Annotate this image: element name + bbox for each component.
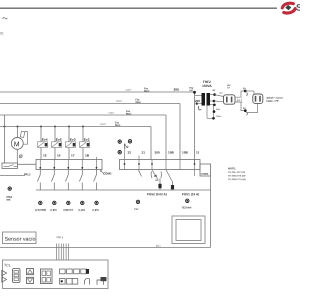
valve Ev4: [38, 127, 48, 160]
svg-text:(L/K)YMM: (L/K)YMM: [35, 209, 46, 212]
wire bus L4: [0, 126, 151, 128]
relay contact 1: [37, 170, 40, 191]
bottom divider line: [0, 247, 211, 249]
fuse FUS2 body: [158, 179, 161, 191]
board dark dot row2: [61, 280, 63, 282]
terminal COM2: [200, 164, 211, 176]
board connector row 1: [60, 269, 87, 274]
svg-text:TH-05N-C75 kW: TH-05N-C75 kW: [228, 178, 247, 181]
junction dot L4 x83: [82, 126, 84, 128]
earth symbol below motor: [19, 155, 22, 158]
rectifier R1: [224, 95, 236, 104]
svg-text:COM2: COM2: [201, 172, 209, 176]
wire stub left: [0, 175, 25, 177]
relay contact 4: [79, 170, 82, 191]
ribbon cable: [57, 244, 69, 261]
junction dot L4 x69: [68, 126, 70, 128]
svg-text:10B: 10B: [182, 150, 188, 154]
node S bubble: [118, 151, 121, 154]
relay contact 3: [65, 170, 68, 191]
wire 194 into COM2: [194, 170, 196, 177]
border top line: [0, 7, 277, 9]
wire drop from L1: [194, 92, 196, 164]
svg-text:NOTE:: NOTE:: [228, 166, 236, 170]
svg-text:Sari: Sari: [216, 109, 221, 111]
wire bus L2: [0, 103, 180, 105]
svg-text:Ev2: Ev2: [84, 138, 90, 142]
svg-text:gb: gb: [154, 173, 158, 177]
svg-text:CIK 3: CIK 3: [56, 235, 63, 239]
svg-text:TCL: TCL: [4, 263, 11, 267]
svg-text:Mavi: Mavi: [115, 124, 121, 127]
plug connector: [245, 91, 262, 113]
switch below block2: [139, 170, 142, 177]
AC tilde symbol: [3, 18, 8, 19]
svg-text:FUS2 (0.02 A): FUS2 (0.02 A): [147, 192, 167, 196]
wire motor feed: [17, 127, 19, 138]
junction dot L4 x17.5: [17, 126, 19, 128]
motor capacitor: [20, 131, 27, 144]
svg-text:Gri: Gri: [227, 87, 231, 89]
junction dot L4 x41: [40, 126, 42, 128]
svg-text:TEZGAH: TEZGAH: [181, 206, 191, 209]
svg-text:KM: KM: [6, 199, 10, 202]
board relay icons: [85, 279, 104, 285]
aux contact at COM1 right: [100, 170, 104, 174]
svg-text:01: 01: [0, 31, 4, 35]
fuse FUS1 body: [171, 181, 174, 190]
note text block: [228, 166, 247, 181]
svg-text:Gri: Gri: [189, 89, 193, 92]
svg-text:Mavi: Mavi: [216, 116, 221, 118]
svg-text:22: 22: [127, 150, 131, 154]
label Faz at L1 end: [189, 87, 194, 93]
junction dot L4 x4.5: [4, 126, 6, 128]
wire drop from L4: [150, 127, 152, 160]
svg-text:Ev5: Ev5: [56, 138, 62, 142]
svg-text:REL2: REL2: [24, 172, 31, 176]
relay contact 2: [51, 170, 54, 191]
wire bus L1: [0, 91, 195, 93]
label sebeke: [266, 97, 283, 103]
svg-text:(L)ED: (L)ED: [50, 209, 57, 212]
svg-text:Mavi: Mavi: [135, 101, 141, 104]
wire drop from L3: [165, 115, 167, 160]
wire secondary to R1: [215, 95, 224, 97]
junction dot L4 x55: [54, 126, 56, 128]
wire REL2 to COM1: [18, 163, 37, 165]
wire left column: [4, 115, 6, 163]
svg-text:kablo + PE: kablo + PE: [266, 100, 279, 103]
legend labels: [35, 206, 192, 211]
svg-text:COM1: COM1: [103, 171, 112, 175]
svg-text:200: 200: [154, 150, 159, 154]
legend bubbles row: [39, 199, 189, 204]
valve Ev2: [80, 127, 90, 160]
bus return line: [36, 189, 211, 191]
wire arrow into block2: [124, 149, 126, 160]
svg-text:200: 200: [173, 88, 179, 92]
transformer primary winding: [202, 93, 206, 106]
board icon keys up/down: [27, 269, 34, 284]
monitor inner: [176, 220, 201, 241]
svg-text:150VA: 150VA: [202, 84, 212, 88]
svg-text:(S)EZGY: (S)EZGY: [63, 209, 73, 212]
svg-text:Ev3: Ev3: [70, 138, 76, 142]
svg-text:Mavi: Mavi: [144, 90, 150, 93]
svg-text:TH-05L 107 kW: TH-05L 107 kW: [228, 171, 246, 174]
board connector row 2: [60, 279, 78, 285]
svg-text:11: 11: [196, 150, 200, 154]
label KMA: [6, 196, 12, 202]
controller board TCL box: [3, 260, 109, 289]
svg-text:Sensor vacío: Sensor vacío: [5, 237, 36, 243]
svg-text:16: 16: [57, 153, 61, 157]
wire R1 to plug: [235, 88, 247, 115]
svg-text:FUS1 (15 A): FUS1 (15 A): [182, 192, 199, 196]
fuse label gb: [151, 172, 161, 183]
logo S mark: [282, 3, 295, 13]
svg-text:21: 21: [141, 150, 145, 154]
label Faz/Mavi L2: [135, 98, 141, 104]
monitor outer: [172, 216, 205, 244]
transformer TRF2 label: [202, 80, 212, 88]
svg-text:kev: kev: [134, 208, 139, 211]
terminal block 2: [120, 160, 201, 170]
primary stub bottom: [197, 103, 202, 105]
wire box2 to FUS1: [166, 170, 172, 181]
svg-text:R1: R1: [236, 98, 243, 104]
svg-text:17: 17: [71, 153, 75, 157]
wire box2 to FUS2: [152, 170, 159, 181]
svg-text:S: S: [296, 2, 300, 13]
valve Ev3: [66, 127, 76, 160]
terminal block COM1: [36, 160, 102, 170]
svg-text:Mavi: Mavi: [126, 112, 132, 115]
label 22 L4: [115, 121, 121, 127]
motor M: [11, 138, 23, 150]
svg-text:(L)HK: (L)HK: [92, 209, 99, 212]
node KMA bubble: [8, 187, 11, 190]
wire drop from L2: [179, 104, 181, 160]
earth hook primary: [198, 106, 201, 110]
label Faz/Mavi L1: [144, 87, 150, 93]
box Sensor vacio: [3, 232, 37, 244]
svg-text:Ev4: Ev4: [42, 138, 48, 142]
board icon display: [41, 269, 53, 284]
relay REL2: [2, 163, 18, 169]
terminal dot L1 end: [193, 91, 196, 94]
wire motor to REL2: [16, 149, 18, 163]
board dark chip: [86, 269, 89, 274]
primary junction dot: [196, 102, 198, 104]
block2 terminal labels: [127, 150, 199, 154]
door switch symbols above block2: [118, 140, 132, 149]
terminal numbers 15 16 17 18: [43, 153, 90, 157]
board edge connector: [101, 277, 107, 281]
wire bus L3: [0, 114, 166, 116]
transformer secondary winding: [207, 93, 211, 106]
svg-text:Gri: Gri: [219, 93, 223, 95]
wire PC right edge: [210, 176, 212, 248]
COM1 feedthrough wires and dots: [39, 157, 97, 170]
label Faz/Mavi L3: [126, 110, 132, 116]
board icon power: [2, 270, 7, 282]
svg-text:(L)AN: (L)AN: [78, 209, 85, 212]
svg-text:TH-05N-075 kW: TH-05N-075 kW: [228, 175, 246, 178]
svg-text:M: M: [14, 141, 20, 148]
svg-text:10B: 10B: [168, 150, 174, 154]
primary stub top: [195, 95, 202, 97]
svg-text:200: 200: [195, 99, 200, 103]
svg-text:15: 15: [43, 153, 47, 157]
secondary tiny labels: [212, 90, 223, 118]
secondary tap wires: [207, 93, 216, 119]
relay contact 5: [94, 170, 97, 191]
block2 feedthrough wires: [124, 156, 196, 170]
label above R1: [227, 84, 231, 89]
valve Ev5: [52, 127, 62, 160]
board icon connector J1: [13, 269, 21, 283]
